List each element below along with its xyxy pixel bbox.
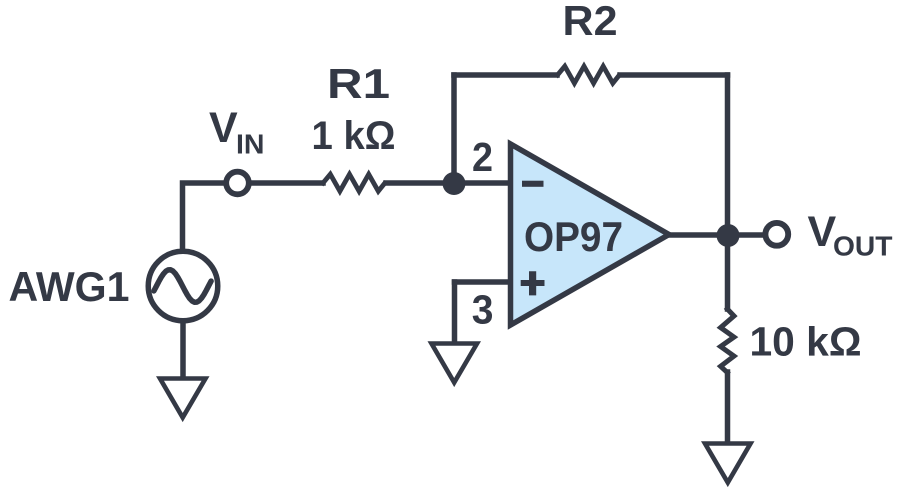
ground output (705, 444, 751, 483)
ground pin3 (432, 344, 478, 383)
wire feedback top right segment (620, 72, 728, 78)
wire 10k to ground (725, 372, 731, 443)
svg-text:3: 3 (472, 286, 494, 332)
op-amp minus sign (522, 181, 544, 187)
wire AWG1 to ground (180, 319, 186, 378)
node junction 2 (443, 172, 466, 195)
svg-text:R1: R1 (327, 60, 390, 107)
svg-text:IN: IN (236, 129, 265, 160)
node junction output (717, 224, 740, 247)
wire input horizontal VIN to R1 and down to AWG1 (183, 183, 324, 251)
wire feedback down to output (725, 75, 731, 235)
svg-text:OUT: OUT (833, 230, 893, 261)
wire output node down to 10k (725, 235, 731, 309)
wire R1 to node 2 (386, 180, 510, 186)
wire pin3 vertical to ground (452, 282, 458, 343)
wire feedback top left segment (454, 72, 557, 78)
wire node 2 up to feedback (451, 75, 457, 183)
source AWG1 sine (154, 270, 211, 302)
op-amp plus sign (521, 271, 545, 295)
ground AWG1 (160, 379, 206, 418)
svg-text:OP97: OP97 (524, 213, 623, 260)
svg-text:1 kΩ: 1 kΩ (312, 114, 396, 158)
resistor R2 (558, 66, 620, 83)
source AWG1 circle (148, 251, 218, 321)
svg-text:10 kΩ: 10 kΩ (750, 319, 862, 365)
wire op-amp output to VOUT (669, 232, 766, 238)
op-amp U1 triangle (511, 144, 670, 325)
svg-text:R2: R2 (563, 0, 618, 44)
terminal VIN (226, 172, 249, 195)
svg-text:AWG1: AWG1 (9, 263, 130, 310)
resistor R1 (323, 174, 385, 191)
svg-text:2: 2 (472, 134, 493, 180)
svg-text:V: V (209, 104, 238, 152)
resistor 10k (721, 309, 734, 373)
wire pin3 horizontal (455, 279, 511, 285)
terminal VOUT (765, 223, 788, 246)
